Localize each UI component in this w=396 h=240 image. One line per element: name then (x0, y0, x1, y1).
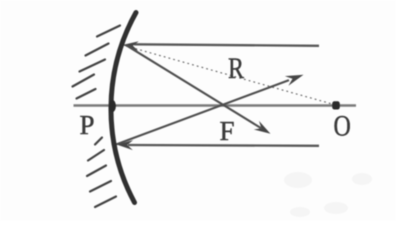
svg-text:F: F (220, 116, 235, 146)
svg-text:P: P (80, 110, 95, 140)
svg-text:O: O (334, 109, 351, 142)
svg-text:R: R (228, 51, 245, 84)
